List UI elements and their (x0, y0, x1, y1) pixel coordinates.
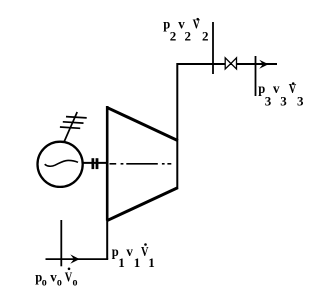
mains hatch stroke 3 (60, 127, 80, 128)
outlet flow arrow (259, 60, 268, 69)
mains hatch stroke 1 (66, 117, 87, 118)
label p3 v3 V3 (258, 82, 304, 108)
compressor top edge (107, 107, 178, 140)
mains connection line (64, 112, 77, 143)
valve V (throttle) right triangle (231, 58, 237, 69)
motor M (AC drive) (38, 142, 83, 187)
outlet pipe horizontal (177, 63, 278, 65)
label p0 v0 V0 (35, 268, 77, 289)
shaft centerline dash 1 (110, 163, 117, 165)
svg-text:o: o (57, 274, 62, 288)
shaft centerline dash 3 (167, 163, 171, 165)
svg-text:3: 3 (297, 94, 304, 109)
svg-text:v: v (126, 245, 132, 260)
shaft centerline dot 1 (121, 163, 124, 165)
svg-text:v: v (50, 271, 57, 286)
shaft centerline dash 2 (126, 163, 158, 165)
compressor left edge (106, 106, 109, 221)
compressor right edge / outlet pipe vertical (176, 63, 178, 188)
svg-text:1: 1 (118, 255, 125, 270)
inlet flow arrow (70, 254, 79, 263)
inlet pipe horizontal (46, 258, 109, 260)
svg-text:V: V (65, 271, 73, 286)
shaft motor to compressor (83, 162, 108, 164)
valve V (throttle) left triangle (225, 58, 231, 69)
mains hatch stroke 2 (63, 122, 84, 123)
state point 2 tick (212, 22, 214, 74)
AC sine wave inside motor (45, 160, 78, 166)
label p1 v1 V1 (112, 243, 155, 270)
svg-text:o: o (42, 274, 47, 288)
compressor bottom edge (107, 188, 178, 221)
svg-text:1: 1 (134, 255, 141, 270)
svg-text:3: 3 (280, 94, 287, 109)
svg-text:3: 3 (265, 94, 272, 109)
state point 3 tick (255, 56, 257, 96)
state point 0 tick (60, 220, 62, 266)
svg-text:o: o (73, 274, 78, 288)
coupling bar 2 (96, 158, 99, 169)
inlet pipe vertical (106, 219, 108, 259)
svg-text:2: 2 (185, 28, 192, 43)
svg-text:v: v (273, 82, 280, 97)
svg-text:1: 1 (148, 255, 155, 270)
shaft centerline dot 2 (162, 163, 165, 165)
coupling bar 1 (92, 158, 95, 169)
label p2 v2 V2 (163, 18, 208, 44)
svg-text:V: V (193, 18, 201, 33)
svg-text:2: 2 (170, 28, 177, 43)
svg-text:2: 2 (202, 28, 209, 43)
